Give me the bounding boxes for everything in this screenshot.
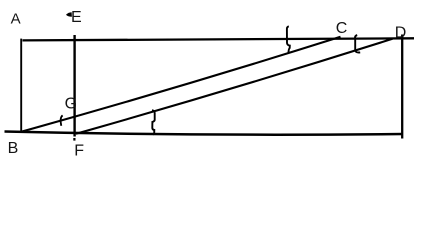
wire vertical EF bbox=[73, 35, 75, 137]
node EF tail dot bbox=[73, 138, 75, 141]
wire bottom side BF bbox=[5, 132, 404, 135]
wire top side AD bbox=[23, 38, 415, 40]
angle mark at B bbox=[61, 115, 63, 125]
angle mark at C bbox=[287, 26, 290, 53]
wire left side AB bbox=[20, 39, 22, 133]
svg-text:E: E bbox=[71, 9, 82, 26]
svg-text:A: A bbox=[11, 11, 21, 28]
node arrow at E bbox=[66, 12, 72, 17]
wire diagonal BC bbox=[21, 37, 341, 132]
svg-text:F: F bbox=[74, 142, 84, 159]
svg-text:D: D bbox=[395, 24, 407, 41]
svg-text:B: B bbox=[8, 140, 19, 157]
wire diagonal FD bbox=[76, 39, 393, 134]
angle mark at F bbox=[152, 110, 155, 134]
angle mark at D bbox=[355, 35, 360, 52]
wire right side below D bbox=[401, 35, 403, 139]
svg-text:G: G bbox=[65, 96, 77, 113]
svg-text:C: C bbox=[336, 20, 348, 37]
